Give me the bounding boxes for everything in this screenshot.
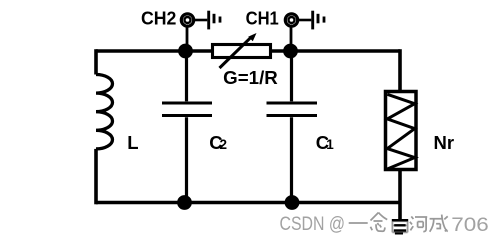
- svg-text:CSDN @: CSDN @: [280, 213, 346, 235]
- svg-text:Nr: Nr: [434, 132, 455, 153]
- svg-text:2: 2: [220, 137, 228, 152]
- svg-text:706: 706: [451, 214, 489, 236]
- svg-text:CH1: CH1: [246, 8, 279, 29]
- svg-text:L: L: [127, 132, 138, 153]
- svg-text:1: 1: [326, 137, 334, 152]
- svg-text:CH2: CH2: [141, 8, 176, 29]
- svg-text:G=1/R: G=1/R: [223, 68, 278, 88]
